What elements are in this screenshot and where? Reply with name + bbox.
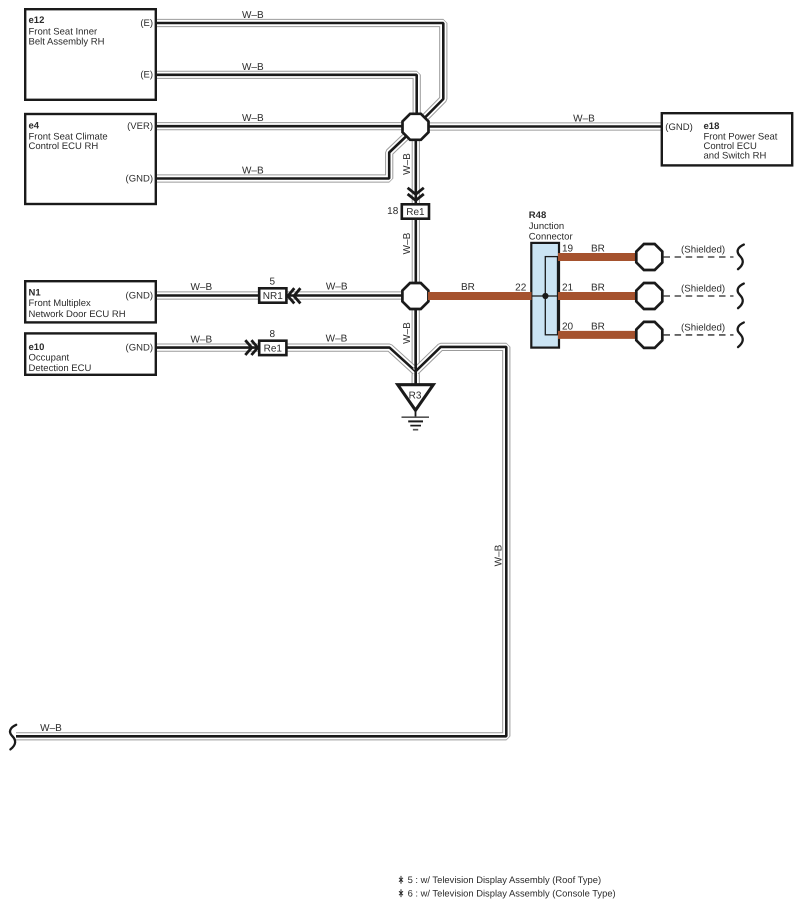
- svg-text:R3: R3: [409, 391, 422, 402]
- svg-text:W–B: W–B: [242, 10, 264, 21]
- svg-text:Front Multiplex: Front Multiplex: [29, 298, 92, 309]
- svg-text:5 : w/ Television Display Asse: 5 : w/ Television Display Assembly (Roof…: [408, 874, 601, 885]
- svg-text:BR: BR: [591, 321, 605, 332]
- svg-text:BR: BR: [591, 282, 605, 293]
- svg-text:Connector: Connector: [529, 232, 573, 243]
- svg-text:(Shielded): (Shielded): [681, 322, 725, 333]
- svg-text:(GND): (GND): [665, 122, 692, 133]
- svg-text:Control ECU RH: Control ECU RH: [29, 141, 99, 152]
- svg-text:21: 21: [562, 282, 574, 293]
- svg-text:W–B: W–B: [402, 322, 413, 344]
- svg-text:Occupant: Occupant: [29, 353, 70, 364]
- svg-text:NR1: NR1: [263, 291, 283, 302]
- svg-text:e12: e12: [29, 15, 45, 26]
- svg-text:8: 8: [270, 329, 276, 340]
- svg-text:19: 19: [562, 243, 574, 254]
- svg-text:(E): (E): [140, 70, 153, 81]
- svg-text:W–B: W–B: [573, 113, 595, 124]
- svg-text:Re1: Re1: [264, 344, 283, 355]
- svg-text:BR: BR: [461, 282, 475, 293]
- svg-text:Junction: Junction: [529, 221, 564, 232]
- svg-text:BR: BR: [591, 243, 605, 254]
- svg-text:20: 20: [562, 321, 574, 332]
- svg-text:and Switch RH: and Switch RH: [704, 150, 767, 161]
- svg-text:W–B: W–B: [40, 723, 62, 734]
- svg-text:(Shielded): (Shielded): [681, 244, 725, 255]
- svg-text:(GND): (GND): [126, 342, 153, 353]
- svg-text:W–B: W–B: [190, 282, 212, 293]
- svg-text:22: 22: [515, 282, 527, 293]
- svg-text:18: 18: [387, 206, 399, 217]
- svg-text:N1: N1: [29, 287, 42, 298]
- svg-text:(GND): (GND): [126, 173, 153, 184]
- svg-text:W–B: W–B: [326, 334, 348, 345]
- svg-text:6 : w/ Television Display Asse: 6 : w/ Television Display Assembly (Cons…: [408, 888, 616, 899]
- svg-text:W–B: W–B: [190, 334, 212, 345]
- svg-text:(E): (E): [140, 18, 153, 29]
- svg-text:e4: e4: [29, 121, 40, 132]
- svg-text:W–B: W–B: [242, 62, 264, 73]
- svg-text:5: 5: [270, 277, 276, 288]
- svg-text:(VER): (VER): [127, 121, 153, 132]
- svg-text:W–B: W–B: [402, 232, 413, 254]
- svg-text:Belt Assembly RH: Belt Assembly RH: [29, 37, 105, 48]
- svg-text:W–B: W–B: [242, 113, 264, 124]
- svg-text:W–B: W–B: [494, 544, 505, 566]
- svg-text:W–B: W–B: [242, 165, 264, 176]
- svg-text:R48: R48: [529, 210, 546, 221]
- svg-text:(GND): (GND): [126, 290, 153, 301]
- svg-text:(Shielded): (Shielded): [681, 283, 725, 294]
- svg-text:W–B: W–B: [326, 282, 348, 293]
- svg-text:Network Door ECU RH: Network Door ECU RH: [29, 309, 126, 320]
- svg-text:e10: e10: [29, 342, 45, 353]
- svg-text:Detection ECU: Detection ECU: [29, 363, 92, 374]
- svg-text:Re1: Re1: [406, 207, 425, 218]
- svg-text:W–B: W–B: [402, 153, 413, 175]
